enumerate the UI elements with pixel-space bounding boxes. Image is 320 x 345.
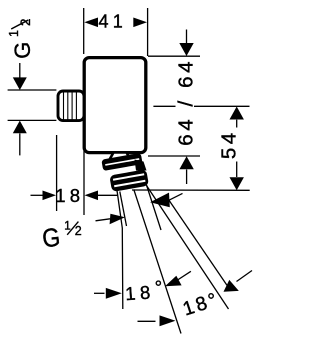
svg-text:64 / 64: 64 / 64: [174, 58, 197, 146]
dim 64/64 extension line top: [148, 55, 200, 57]
dim 64/64 stub top: [186, 30, 188, 44]
label G1/2 bottom fraction slash: [67, 222, 78, 235]
dim G1/2 arrow bottom: [13, 121, 27, 134]
nozzle nut: [109, 169, 149, 192]
dim 18 tail left: [31, 194, 44, 196]
dim 64/64 text backing: [176, 61, 195, 146]
ray R2 (18 deg hose position): [134, 190, 181, 334]
dim 18 arrow right: [85, 191, 99, 201]
dim 64/64 stub bottom: [186, 170, 188, 185]
dim 64/64 arrow top: [179, 43, 193, 56]
connector thread line 3: [71, 92, 73, 120]
nozzle neck: [109, 153, 131, 161]
dim 54 extension line bottom: [132, 189, 250, 191]
dim 64/64 extension line mid (outlet axis): [153, 105, 249, 107]
svg-text:2: 2: [75, 224, 82, 238]
dim 18 arrow left: [43, 191, 57, 201]
dim G1/2 stub top: [19, 63, 21, 78]
svg-text:2: 2: [18, 18, 33, 26]
svg-text:54: 54: [218, 129, 241, 159]
svg-text:1: 1: [64, 220, 70, 232]
dim G1/2 stub bottom: [19, 133, 21, 155]
angle dim 1 arrow right: [165, 276, 182, 287]
label G1/2 leader arrowhead: [110, 214, 125, 224]
svg-text:1: 1: [7, 30, 21, 37]
dim 41 extension line right: [147, 8, 149, 56]
connector thread line 1: [63, 92, 65, 120]
body outline: [84, 58, 146, 153]
ray R3 (36 deg hose position): [145, 183, 229, 310]
angle dim 1 tail right: [176, 271, 191, 281]
svg-text:41: 41: [99, 12, 128, 32]
dim 18 extension line left: [56, 135, 58, 211]
ray R1 stub: [120, 192, 127, 227]
angle dim 2 tail left: [138, 320, 156, 322]
dim 18 tail right: [98, 194, 118, 196]
connector thread line 2: [67, 92, 69, 120]
nozzle collar: [101, 153, 142, 171]
dim 41 arrow left: [84, 18, 98, 28]
dim G1/2 arrow top: [13, 77, 27, 90]
dim 18 extension line right: [83, 151, 85, 215]
angle dim 2 arrow left: [160, 315, 176, 326]
dim 64/64 extension line bottom: [148, 155, 200, 157]
svg-text:G: G: [10, 42, 35, 59]
dim 54 stub upper: [236, 120, 238, 128]
threaded connector: [58, 91, 84, 121]
dim G1/2 extension line lower: [8, 119, 57, 121]
dim 64/64 arrow bottom: [179, 156, 193, 169]
angle dim 2 arrow right: [224, 280, 239, 292]
outlet leader line: [169, 200, 229, 287]
angle dim 2 tail right: [237, 271, 253, 282]
dim 54 arrow top: [230, 107, 244, 120]
ray R2 stub: [147, 185, 162, 230]
angle dim 1 arrow left: [106, 288, 122, 299]
outlet leader stub: [169, 193, 183, 200]
dim 54 stub lower: [236, 162, 238, 178]
dim G1/2 extension line upper: [8, 89, 57, 91]
angle dim 1 tail left: [94, 292, 105, 294]
label G1/2 leader tail: [96, 219, 111, 221]
dim 54 arrow bottom: [230, 177, 244, 190]
dim 41 arrow right: [133, 18, 147, 28]
dim G1/2 left fraction slash: [11, 20, 28, 29]
svg-text:18: 18: [55, 185, 84, 206]
outlet leader arrowhead: [150, 193, 170, 208]
svg-text:G: G: [41, 223, 62, 253]
ray R1 (vertical hose position): [117, 189, 123, 309]
nozzle joint wedge: [135, 160, 147, 171]
connector thread line 4: [75, 92, 77, 120]
dim 41 extension line left: [83, 8, 85, 54]
